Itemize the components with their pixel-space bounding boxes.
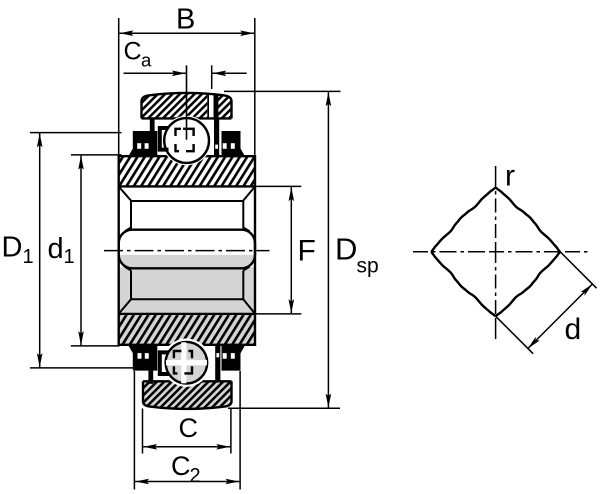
- dimension C2 extension lines: [133, 371, 135, 490]
- svg-text:a: a: [141, 50, 152, 71]
- dimension d line: [528, 284, 593, 349]
- end view vertical centerline: [495, 166, 497, 340]
- svg-text:sp: sp: [357, 255, 379, 278]
- svg-text:D: D: [335, 232, 357, 267]
- svg-text:B: B: [176, 4, 195, 36]
- bore side surface (stadium), gray below centerline: [119, 230, 255, 269]
- inner ring bottom face line: [119, 313, 255, 315]
- dimension B extension lines: [118, 18, 120, 157]
- end view horizontal centerline: [413, 251, 588, 253]
- dimension Ca line: [124, 72, 186, 74]
- ball bottom center mark square: [174, 351, 192, 373]
- square bore end view outline: [432, 188, 560, 316]
- svg-text:C: C: [124, 38, 142, 66]
- ball top: [164, 118, 209, 163]
- lubrication slot black wall: [214, 94, 219, 118]
- svg-text:C: C: [171, 451, 191, 481]
- inner ring side edges: [117, 155, 119, 346]
- dimension B line: [119, 32, 254, 34]
- inner ring bottom hatched band (shaded): [119, 315, 255, 345]
- outer ring top section (spherical OD, hatched): [142, 93, 232, 119]
- dimension d1 line: [80, 156, 82, 346]
- bore lower chamfer lines: [120, 267, 255, 313]
- outer ring bottom section (shaded, hatched): [143, 381, 232, 409]
- bore lower chamfer band (shaded): [119, 267, 255, 314]
- lubrication slot left wall: [207, 94, 209, 119]
- seal bottom right: [215, 346, 245, 381]
- seal top right: [214, 118, 245, 155]
- svg-text:d: d: [48, 233, 64, 265]
- ball bottom (shaded): [166, 342, 208, 384]
- dimension Dsp line: [327, 92, 329, 408]
- seal top left: [129, 118, 158, 156]
- Ca tick right: [211, 65, 213, 89]
- svg-text:F: F: [298, 235, 316, 268]
- dimension Dsp extension lines: [224, 90, 341, 92]
- ball top center mark square: [176, 129, 194, 151]
- lubrication slot in outer ring: [207, 93, 213, 119]
- ball bottom white centerline channels: [166, 360, 207, 365]
- dimension C line: [143, 446, 230, 448]
- svg-text:d: d: [565, 313, 582, 346]
- dimension F extension lines: [256, 185, 301, 187]
- inner ring top hatched band: [119, 156, 255, 187]
- ball top centerline from Ca tick through dome: [186, 65, 188, 139]
- dimension C extension ticks: [142, 409, 144, 454]
- svg-text:1: 1: [64, 246, 75, 268]
- dimension d extension line from right corner: [560, 252, 597, 289]
- horizontal centerline of bearing: [104, 250, 270, 252]
- cage bracket bottom ball: [160, 352, 169, 374]
- cage bracket top ball: [160, 128, 169, 150]
- dimension C2 line: [135, 481, 239, 483]
- svg-text:C: C: [179, 413, 199, 443]
- dimension D1 line: [39, 133, 41, 367]
- outer ring top bottom line: [142, 117, 232, 119]
- svg-text:2: 2: [190, 465, 201, 487]
- dimension d1 extension lines: [71, 154, 122, 156]
- inner ring top band bottom edge: [119, 185, 255, 187]
- dimension D1 extension lines: [30, 132, 122, 134]
- svg-text:D: D: [2, 231, 23, 263]
- seal bottom left: [129, 346, 158, 384]
- dimension F line: [290, 187, 292, 313]
- svg-text:1: 1: [23, 246, 34, 268]
- bore upper chamfer trapezoid: [120, 188, 255, 232]
- dimension d extension line from bottom corner: [496, 316, 533, 354]
- svg-text:r: r: [505, 160, 515, 193]
